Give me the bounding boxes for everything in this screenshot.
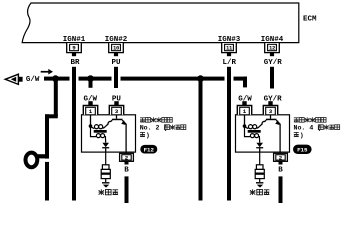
wire G/W bus segment 3 [121,77,225,81]
inline connector loop [26,153,48,168]
junction dot left [52,75,59,82]
svg-text:F15: F15 [297,147,308,154]
svg-text:PU: PU [111,59,121,67]
off-page connector arrow A [5,74,22,84]
ECM pin 11 [222,43,237,56]
coil pin 3 [109,101,123,115]
spark plug [255,165,264,188]
direction arrow [41,69,53,75]
svg-text:No. 4 (: No. 4 ( [294,125,322,132]
svg-text:2: 2 [279,154,283,161]
junction dot right [197,75,204,82]
wire GY/R vertical [270,67,274,89]
wire left branch upper [54,80,58,116]
ignition coil No.2 assembly [82,101,136,203]
svg-text:No. 2 (: No. 2 ( [140,125,168,132]
wire G/W bus segment 4 [234,77,248,81]
svg-text:): ) [146,132,150,139]
svg-text:BR: BR [70,59,80,67]
wire right dot branch vertical [199,80,203,201]
svg-text:GY/R: GY/R [264,59,283,67]
label spark plug 火星塞 (right) [250,189,270,195]
coil pin 2 [120,153,134,164]
junction dot coil2 feed [87,75,94,82]
ECM box (torn left edge) [22,3,299,43]
coil pin 1 [237,101,251,115]
svg-text:B: B [278,166,283,174]
svg-text:9: 9 [72,45,76,52]
svg-text:F12: F12 [144,146,155,153]
wire G/W bus segment 2 [79,77,112,81]
power transistor Q [260,115,281,154]
power transistor Q [106,115,127,154]
transformer core [94,130,107,133]
svg-text:10: 10 [113,45,120,52]
wire bus corner drop [243,77,247,88]
transformer T primary [91,125,106,129]
svg-text:ECM: ECM [303,16,317,24]
label spark plug 火星塞 (left) [99,189,119,195]
primary feed wire [90,115,92,126]
svg-text:G/W: G/W [26,76,40,84]
ignition coil No.4 assembly [236,101,290,203]
wire BR vertical [72,67,76,201]
coil pin 1 [83,101,97,115]
svg-text:1: 1 [89,108,93,115]
coil box [236,115,290,152]
wire G/W stub below dot (coil2) [89,81,93,88]
transformer T secondary [91,126,106,143]
coil box [82,115,136,152]
spark plug lead [105,152,107,165]
svg-text:B: B [124,166,129,174]
wire B vertical [125,176,129,203]
ECM pin 10 [109,43,124,56]
coil pin 2 [274,153,288,164]
wire L/R vertical [227,67,231,201]
svg-text:): ) [300,132,304,139]
primary feed wire [244,115,246,126]
wire left branch lower upper-part [45,114,49,158]
svg-text:12: 12 [269,45,276,52]
caption line1 coil No.4 [294,117,326,122]
wire G/W bus segment 1 [44,77,70,81]
svg-text:3: 3 [115,108,119,115]
coil pin 3 [263,101,277,115]
connector badge F15 [293,145,312,154]
caption line3 coil No.2 [140,132,145,137]
wire left branch jog [45,114,58,118]
ECM pin 12 [265,43,280,56]
diode D [102,143,109,152]
transformer core [248,130,261,133]
junction dot primary [243,124,247,128]
svg-text:11: 11 [226,45,233,52]
wire PU vertical [114,67,118,88]
wire left branch lower lower-part [45,162,49,201]
svg-text:1: 1 [243,108,247,115]
wire B vertical [279,176,283,203]
transformer T primary [245,125,260,129]
spark plug [101,165,110,188]
ECM pin 9 [67,43,82,56]
svg-text:GY/R: GY/R [264,95,283,103]
caption line1 coil No.2 [140,117,172,122]
svg-text:2: 2 [125,154,129,161]
connector badge F12 [140,145,157,154]
svg-text:L/R: L/R [222,59,236,67]
diode D [256,143,263,152]
spark plug lead [259,152,261,165]
junction dot primary [89,124,93,128]
transformer T secondary [245,126,260,143]
caption line3 coil No.4 [294,132,299,137]
svg-text:3: 3 [269,108,273,115]
